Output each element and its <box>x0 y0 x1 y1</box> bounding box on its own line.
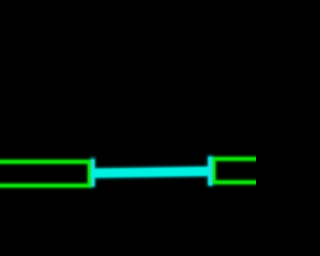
terminal pad right (glow) <box>208 156 213 186</box>
component box U2 (right) <box>214 159 274 182</box>
core bright layer <box>0 157 274 186</box>
component box U1 (left, glow) <box>0 162 90 186</box>
terminal pad left <box>91 160 94 187</box>
wire net <box>93 167 211 177</box>
wire net (glow) <box>92 166 211 178</box>
glow halo layer <box>0 156 274 187</box>
component box U1 (left) <box>0 162 90 186</box>
component box U2 (right, glow) <box>214 159 274 182</box>
terminal pad right <box>208 157 212 185</box>
terminal pad left (glow) <box>91 158 95 187</box>
